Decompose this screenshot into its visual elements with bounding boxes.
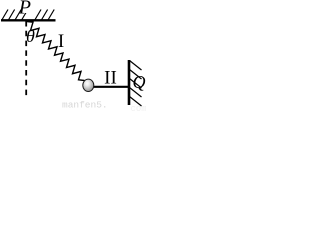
svg-text:manfen5.: manfen5. xyxy=(62,100,108,111)
svg-text:com: com xyxy=(131,104,147,113)
svg-text:P: P xyxy=(18,0,31,19)
svg-text:Q: Q xyxy=(133,72,146,92)
svg-text:II: II xyxy=(104,67,117,88)
svg-text:I: I xyxy=(58,31,64,52)
